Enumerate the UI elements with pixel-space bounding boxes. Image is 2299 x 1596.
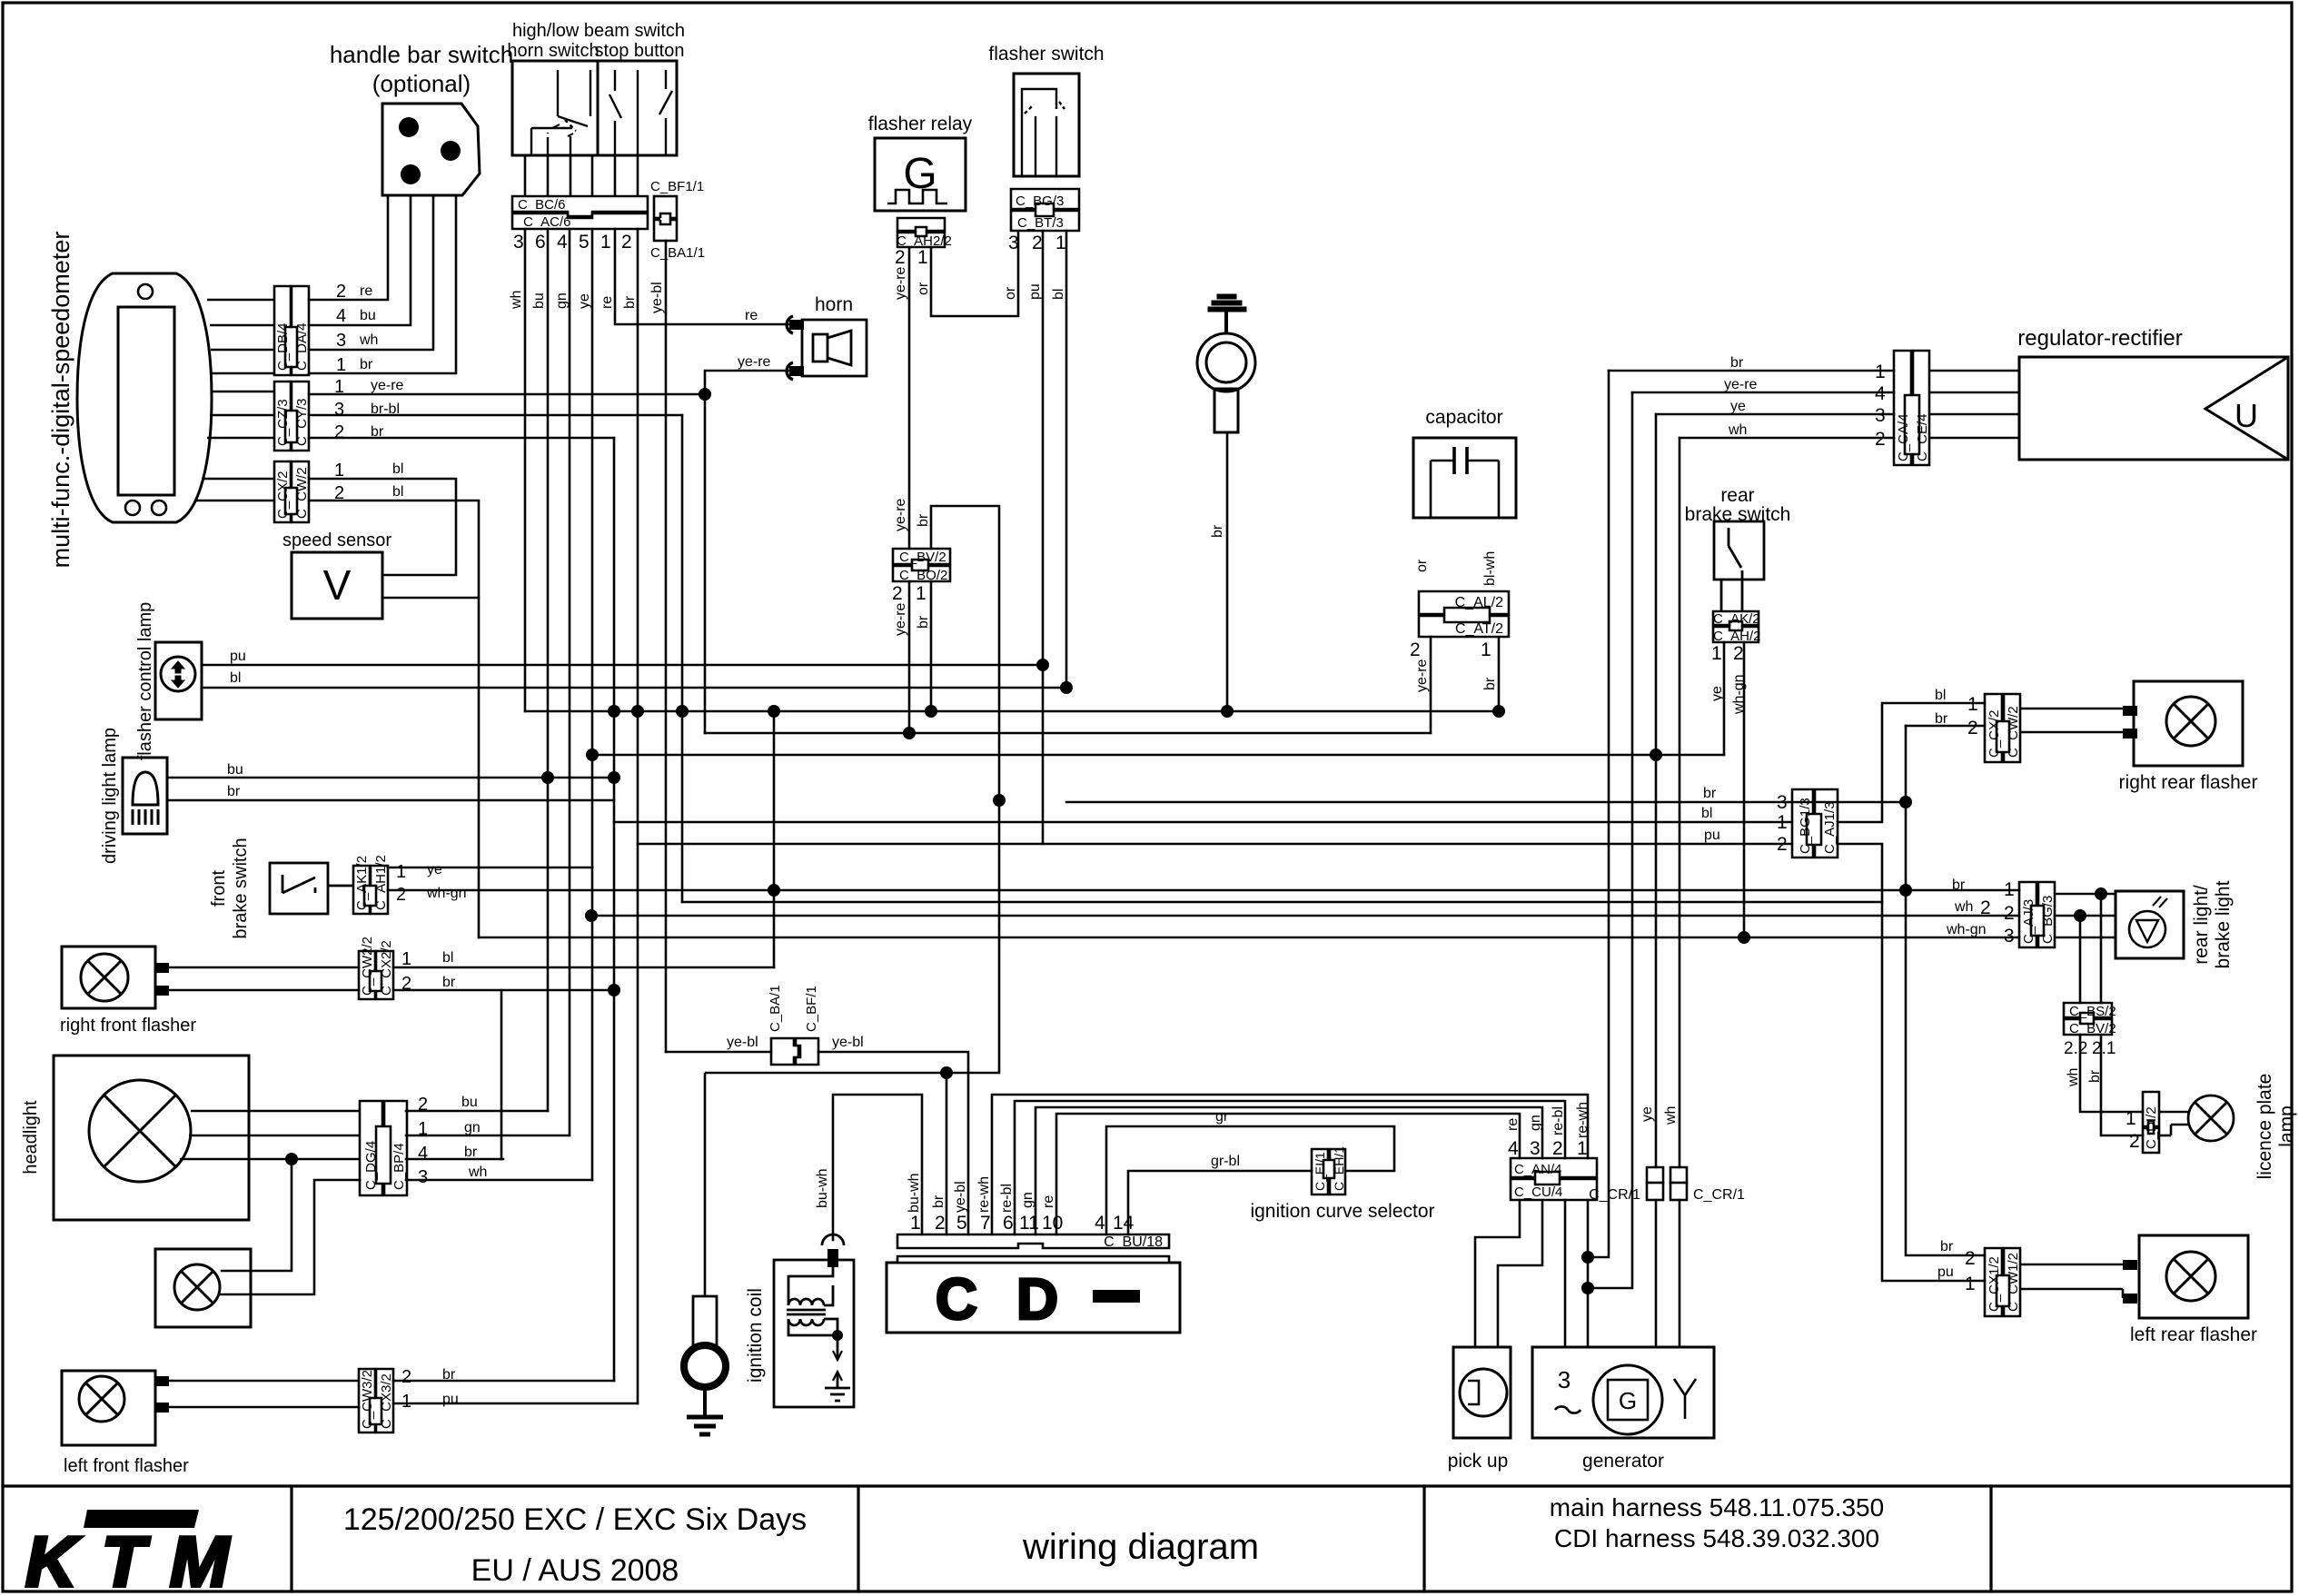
junction at (2098,980) [1899,884,1912,897]
svg-text:D: D [1016,1266,1058,1332]
junction at (2098,883) [1899,796,1912,808]
svg-text:br: br [622,295,638,309]
svg-text:C_AC/6: C_AC/6 [523,214,571,230]
wire: generator ye column [1655,414,1658,1347]
wire: regulator ye-re row [1632,392,1894,394]
svg-text:C_CX/2: C_CX/2 [1987,709,2002,758]
wire: bl row right of C_AJ1/3 [1838,703,1985,822]
svg-text:br: br [1940,1239,1954,1254]
svg-text:3: 3 [513,232,524,253]
svg-text:2: 2 [2004,903,2015,924]
connector C_CW3/2 [359,1369,393,1432]
connector C_BS/2 [2064,1003,2112,1035]
svg-text:ye-re: ye-re [1724,377,1758,392]
svg-text:bl: bl [1935,688,1946,703]
junction at (1748,1418) [1581,1282,1594,1294]
svg-text:C_BA1/1: C_BA1/1 [650,245,705,261]
svg-text:10: 10 [1042,1213,1063,1234]
svg-text:horn switch: horn switch [507,41,599,61]
rear light / brake light [2116,891,2184,958]
svg-text:1: 1 [1875,362,1886,382]
connector C_DA/4 [292,286,309,375]
svg-text:br: br [916,513,931,527]
svg-text:1: 1 [1965,1274,1976,1294]
svg-text:br: br [1935,711,1948,727]
svg-text:gn: gn [1528,1115,1543,1131]
connector C_CZ/3 [274,382,291,451]
svg-text:licence plate: licence plate [2254,1074,2275,1180]
connector C_BU/18 [897,1234,1169,1263]
svg-text:br: br [916,615,931,629]
svg-text:2: 2 [1733,643,1744,664]
ignition curve selector C_EI/1 [1312,1149,1345,1195]
connector C_AJ/3 [2019,882,2055,947]
speedometer stub wires [196,300,274,501]
wire: regulator ye-re column [1588,392,1632,1288]
wire: ye-re below C_BO/2 [908,581,911,733]
svg-text:ignition curve selector: ignition curve selector [1250,1201,1434,1222]
svg-text:2: 2 [1552,1138,1563,1159]
connector C_CX3/2 [376,1369,393,1432]
svg-text:wh: wh [468,1165,487,1180]
wire: headlight br row [406,1158,503,1161]
svg-text:C_CW3/2: C_CW3/2 [360,1370,375,1429]
CDI letters [936,1266,1058,1332]
svg-text:ye-bl: ye-bl [953,1181,968,1213]
wire: or relay to flasher switch [931,231,1018,316]
connector C_AH/2 [1713,627,1759,642]
junction at (702,783) [631,705,644,718]
right rear flasher [2134,681,2243,766]
wire: ye-re bus lower [705,732,1431,735]
svg-text:br: br [1703,786,1717,801]
licence lamp stubs [2159,1112,2189,1135]
svg-text:bl: bl [392,484,403,500]
svg-text:2: 2 [895,247,906,268]
svg-text:1: 1 [600,232,611,253]
svg-text:gr-bl: gr-bl [1211,1154,1240,1169]
wire: br row right front flasher [169,989,359,992]
connector C_BF/1 (mid) [796,1038,818,1065]
left rear flasher [2139,1235,2248,1318]
svg-text:pu: pu [1704,828,1720,843]
svg-text:C_BP/4: C_BP/4 [391,1143,407,1190]
wire: pu row to C_BG1/3 [638,843,1792,846]
svg-text:C_DB/4: C_DB/4 [275,322,291,371]
svg-text:wh: wh [1954,899,1973,915]
junction at (676,1090) [608,984,620,996]
svg-text:flasher control lamp: flasher control lamp [135,602,155,761]
connector C_AC/6 [512,213,648,229]
svg-text:handle bar switch: handle bar switch [330,41,513,68]
CDI wire labels [907,1173,1056,1213]
svg-text:br: br [464,1145,478,1160]
junction at (1748,1384) [1581,1251,1594,1264]
ignition curve selector C_EH/1 [1330,1149,1345,1195]
svg-text:KTM: KTM [25,1522,234,1596]
connector C_BG1/3 [1792,789,1838,857]
svg-text:1: 1 [1967,694,1978,715]
multi-func digital speedometer body [77,273,212,522]
svg-text:G: G [1619,1387,1637,1414]
svg-text:4: 4 [418,1144,428,1164]
svg-text:rear: rear [1720,485,1754,506]
rear brake switch [1714,521,1764,611]
svg-text:pu: pu [230,649,246,664]
wire: br-bl from speedometer [309,414,682,417]
svg-text:bu: bu [227,762,243,778]
svg-text:1: 1 [1481,639,1491,660]
capacitor [1413,438,1516,518]
svg-text:C_CU/4: C_CU/4 [1514,1185,1562,1200]
svg-text:br: br [360,357,373,372]
svg-text:ye-bl: ye-bl [727,1035,758,1050]
speedometer screw hole bottom left [125,501,140,515]
connector C_CA/4 [1894,351,1929,465]
svg-text:bu: bu [531,292,547,309]
wire: handlebar to C_DA/4 re [309,195,388,300]
svg-text:125/200/250 EXC / EXC Six Days: 125/200/250 EXC / EXC Six Days [343,1502,807,1537]
speedometer display window [118,307,174,495]
junction at (603,856) [541,771,554,784]
generator [1532,1347,1714,1438]
CDI pin numbers [910,1213,1135,1234]
svg-text:C_BG/3: C_BG/3 [1016,193,1064,209]
wire: br below C_BO/2 [930,581,933,711]
svg-text:3: 3 [334,400,344,420]
svg-text:CDI harness 548.39.032.300: CDI harness 548.39.032.300 [1554,1524,1879,1552]
svg-text:speed sensor: speed sensor [282,530,391,550]
connector C_CE/4 [1913,351,1929,465]
svg-text:bu: bu [461,1095,478,1110]
svg-text:brake switch: brake switch [231,838,251,938]
svg-text:C_AH1/2: C_AH1/2 [373,855,389,910]
ignition coil [774,1234,854,1407]
horn [787,316,867,380]
svg-text:2: 2 [1032,233,1043,253]
svg-text:left rear flasher: left rear flasher [2130,1324,2257,1345]
junction at (1042,1181) [940,1066,953,1079]
driving light lamp [123,758,167,834]
svg-text:C_BO/2: C_BO/2 [899,568,947,583]
svg-text:6: 6 [535,232,546,253]
svg-text:ye-re: ye-re [893,498,908,531]
svg-text:or: or [1003,286,1018,300]
svg-text:C_AN/4: C_AN/4 [1514,1162,1562,1177]
svg-text:C_CE/4: C_CE/4 [1915,413,1930,461]
svg-text:ye: ye [1640,1106,1655,1122]
svg-text:lamp: lamp [2276,1105,2297,1147]
svg-text:4: 4 [336,306,346,326]
wire: br row driving light lamp [167,799,614,802]
wire: handlebar wh [309,195,433,350]
wire: right rear flasher br row [1906,725,1985,728]
svg-text:2: 2 [334,422,344,442]
connector C_BP/4 [384,1101,407,1195]
svg-text:C: C [936,1266,977,1332]
regulator stub wires [1929,371,2019,438]
regulator-rectifier [2019,357,2288,460]
wire: rear brake wh-gn drop [1743,642,1746,937]
connector C_BG/3 [1011,189,1079,231]
connector C_BG/3 (rear) [2038,882,2055,947]
wire: ye column [591,229,594,1180]
svg-text:5: 5 [579,232,590,253]
svg-text:2: 2 [892,583,903,604]
connector C_CX2/2 [376,951,393,999]
connector C_AT/2 [1419,616,1509,637]
svg-text:C_BA/1: C_BA/1 [768,985,783,1032]
wire: bu row driving light lamp [167,777,617,779]
title block top line [3,1484,2292,1487]
svg-text:C_AK1/2: C_AK1/2 [354,856,370,910]
svg-text:bl: bl [230,670,241,686]
svg-text:bl: bl [1701,806,1712,821]
wire: licence wh [2080,1035,2143,1112]
wire: re row [1056,1114,1520,1234]
wire: gr row to selector [1106,1126,1394,1234]
svg-text:3: 3 [2004,926,2015,947]
svg-text:right rear flasher: right rear flasher [2119,772,2258,793]
svg-text:gn: gn [464,1120,481,1135]
svg-text:2: 2 [1410,639,1421,660]
svg-text:C_CZ/3: C_CZ/3 [275,399,291,446]
junction at (1025,783) [925,705,937,718]
svg-text:C_BS/2: C_BS/2 [2069,1004,2116,1019]
svg-text:C_CA/4: C_CA/4 [1896,413,1911,461]
svg-text:br: br [1482,677,1498,690]
wire: pu front flasher riser [169,1406,359,1409]
svg-text:ye: ye [1730,399,1746,414]
wire: rear light risers [2100,894,2103,1003]
headlight stub wires [180,1111,360,1159]
svg-text:wh: wh [359,332,378,348]
svg-text:ye: ye [1709,686,1725,701]
svg-text:br: br [227,784,241,799]
wire: wh-gn long row [388,889,2019,892]
pick up [1453,1347,1511,1438]
junction at (1650,783) [1492,705,1505,718]
svg-text:2: 2 [1965,1248,1976,1269]
wire: pu mid row [682,901,1882,904]
wire: pu row to flasher control lamp [202,664,1043,667]
title block divider 3 [1422,1486,1425,1591]
svg-text:bl: bl [1051,289,1066,300]
speedometer screw hole bottom right [152,501,166,515]
svg-text:re-bl: re-bl [1551,1106,1566,1135]
pin numbers under C_AC/6 [513,232,632,253]
junction at (776,434) [699,388,711,401]
svg-text:C_AK/2: C_AK/2 [1713,611,1760,627]
front brake switch [270,863,353,914]
title block divider 4 [1989,1486,1992,1591]
svg-text:ye-re: ye-re [893,266,908,300]
connector C_BV/2 (rear) [2064,1019,2112,1035]
svg-text:stop button: stop button [595,41,685,61]
connector C_CX/2 (rear) [1985,694,2020,762]
connector C_BO/2 (mid) [893,566,950,581]
svg-text:multi-func.-digital-speedomete: multi-func.-digital-speedometer [47,232,74,569]
svg-text:C_AJ/3: C_AJ/3 [2021,899,2036,944]
wire: ye row [592,754,1724,757]
wire: headlight wh row [406,1179,592,1182]
connector C_CW2/2 [359,951,393,999]
svg-text:wh: wh [1728,422,1747,438]
arrows / spark gap [837,1335,839,1388]
svg-text:right front flasher: right front flasher [60,1016,196,1036]
wire: ye row front brake switch [388,867,592,869]
svg-text:14: 14 [1113,1213,1135,1234]
svg-text:pu: pu [442,1392,459,1407]
stop button switch symbol [609,70,672,155]
connector C_CW/2 (rear) [2004,694,2020,762]
connector C_AH1/2 [371,866,388,914]
wire: regulator br row [1609,370,1894,372]
flasher switch [1014,74,1079,176]
wire: br row to C_BG1/3 [1066,801,1906,804]
wire: bl speedo 2 down to long bus [309,501,479,937]
connector C_AK1/2 [353,866,388,914]
svg-text:high/low beam switch: high/low beam switch [512,21,685,41]
svg-text:wh: wh [1663,1106,1679,1125]
svg-text:flasher switch: flasher switch [988,44,1104,64]
svg-text:re: re [1505,1118,1521,1131]
svg-text:pu: pu [1937,1264,1954,1280]
svg-text:C_BF/1: C_BF/1 [804,986,819,1032]
wire: regulator ye row [1656,413,1894,416]
wire: gn column [569,229,571,1135]
wire: headlight gn row [406,1135,570,1137]
wire: relay ye-re down [908,247,911,549]
svg-text:C_BF1/1: C_BF1/1 [650,179,704,194]
ignition key symbol [1208,294,1246,312]
spark plug cap [822,1234,844,1245]
wire: handlebar br [309,195,456,373]
svg-text:ye: ye [427,862,442,877]
junction at (852,783) [768,705,780,718]
junction at (1823,831) [1650,748,1662,761]
svg-text:2: 2 [621,232,632,253]
svg-text:3: 3 [1530,1138,1541,1159]
svg-text:brake light: brake light [2213,880,2234,968]
left front flasher [62,1371,155,1445]
svg-text:1: 1 [1711,643,1722,664]
svg-text:br: br [931,1195,946,1208]
svg-text:C_BT/3: C_BT/3 [1017,215,1064,231]
svg-text:4: 4 [1508,1138,1519,1159]
junction at (1001,807) [903,727,916,739]
stop button box [598,61,677,155]
wire: ye-bl row into C_BA/1 [666,1051,771,1054]
svg-text:C_AJ1/3: C_AJ1/3 [1822,801,1838,854]
pin numbers / wire labels C_DA/4 [334,282,346,503]
wire: wh column from switch [524,229,527,711]
svg-text:ye: ye [577,293,592,309]
svg-text:bu-wh: bu-wh [815,1168,830,1208]
wire: key br drop [1226,432,1229,711]
svg-text:1: 1 [401,1392,411,1412]
svg-text:2.2: 2.2 [2064,1039,2087,1058]
wire: generator wire 2 [1587,1200,1590,1347]
title text: harness [1550,1493,1884,1552]
svg-text:ignition coil: ignition coil [745,1288,766,1383]
wire: re column to horn [615,229,789,324]
connector C_BF1/1 [654,196,677,241]
junction at (652,831) [586,748,599,761]
svg-text:wh-gn: wh-gn [426,886,467,901]
svg-text:C_BG1/3: C_BG1/3 [1798,798,1813,854]
svg-text:or: or [1414,559,1430,572]
svg-text:bl: bl [442,950,453,966]
wire: flasher switch pu column [1042,231,1045,844]
headlight parking lamp box [155,1249,251,1327]
wire: licence br [2101,1035,2143,1135]
wire: bl speedo 1 [309,479,456,575]
wire: wh-gn rear row [479,937,2019,939]
wire: br-bl drop [681,415,684,902]
right rear flasher stubs [2020,709,2134,732]
svg-text:gn: gn [554,292,570,309]
high/low beam switch symbol [531,70,590,155]
svg-text:re: re [1041,1195,1056,1208]
wire: br above C_BV/2 [931,506,999,1073]
svg-text:U: U [2235,397,2258,434]
svg-text:flasher relay: flasher relay [868,114,973,134]
wire: generator wh column [1679,438,1681,1347]
svg-text:C_EI/1: C_EI/1 [1313,1152,1327,1191]
svg-text:C_DI/2: C_DI/2 [2144,1106,2159,1149]
connector C_CR/1 right [1670,1167,1687,1190]
connector C_DG/4 [360,1101,407,1195]
svg-text:re: re [360,283,372,299]
svg-text:ye-re: ye-re [738,354,771,370]
svg-text:C_DA/4: C_DA/4 [294,322,310,371]
wire: bl row right front flasher [169,967,359,969]
wire: gr-bl row to selector [1128,1171,1312,1234]
svg-text:1: 1 [1055,233,1066,253]
junction at (651,1008) [585,909,598,922]
wire: horn ye-re [705,371,789,733]
svg-text:1: 1 [396,862,406,882]
wire: re-bl row [1015,1101,1565,1234]
svg-text:re: re [745,308,758,323]
wire: rear brake ye drop [1723,642,1726,755]
licence plate lamp [2188,1095,2234,1141]
wire: generator wire 1 [1564,1200,1567,1347]
svg-text:gr: gr [1215,1109,1229,1125]
wire: pickup wire 2 [1498,1200,1542,1347]
handle bar switch connector pins [399,117,461,184]
svg-text:4: 4 [1875,383,1886,404]
speed sensor box [292,552,382,619]
connector C_CX/2 [274,461,291,522]
svg-text:C_EH/1: C_EH/1 [1332,1146,1346,1191]
connector C_AN/4 [1511,1158,1597,1200]
wire: main br ground bus [525,710,1499,713]
svg-text:bu-wh: bu-wh [907,1173,922,1213]
svg-text:br: br [442,975,456,990]
horn switch symbol [547,141,549,155]
svg-text:C_CX3/2: C_CX3/2 [379,1373,394,1429]
svg-text:2: 2 [1875,429,1886,450]
svg-text:ye-bl: ye-bl [832,1035,864,1050]
svg-text:2: 2 [935,1213,946,1234]
wire: speed sensor stub [382,597,479,600]
CDI unit [887,1263,1180,1333]
svg-text:rear light/: rear light/ [2191,885,2212,965]
svg-text:ye-re: ye-re [371,378,404,393]
svg-text:gn: gn [1020,1192,1036,1208]
